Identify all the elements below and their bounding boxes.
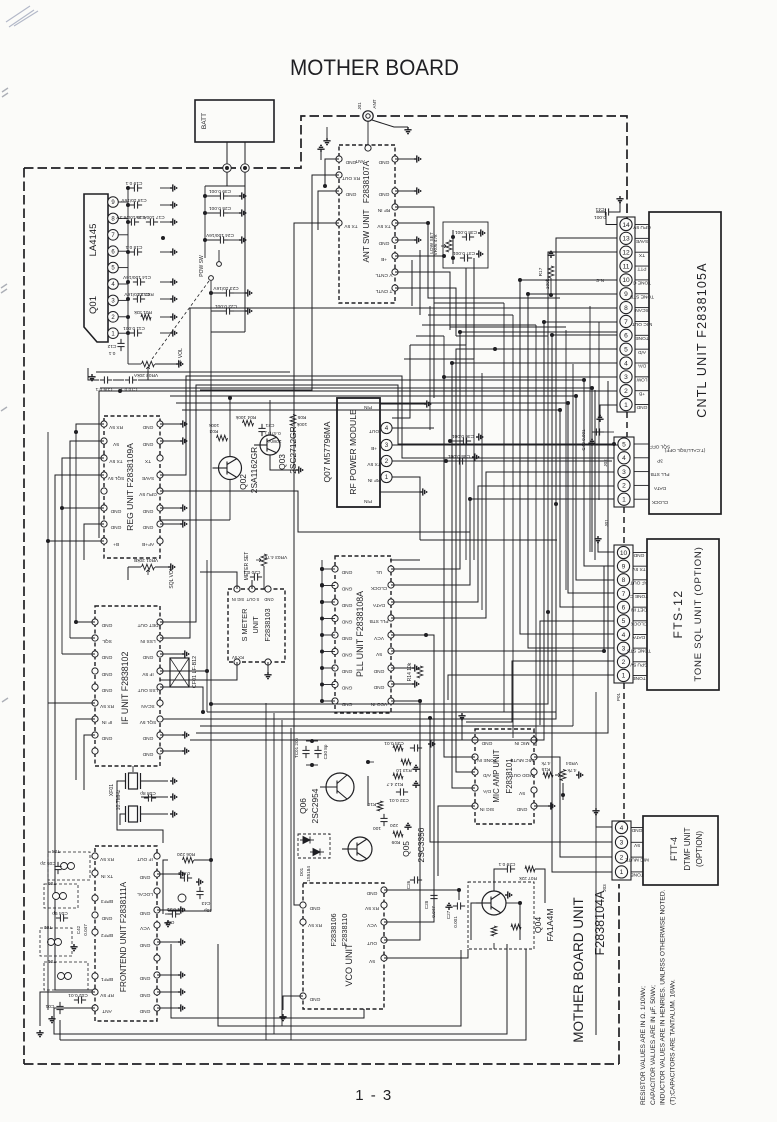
svg-text:Q05: Q05 xyxy=(401,841,411,857)
svg-text:GND: GND xyxy=(341,569,352,575)
svg-text:4: 4 xyxy=(622,455,626,462)
svg-text:GND: GND xyxy=(142,751,153,757)
svg-text:0.001: 0.001 xyxy=(453,916,458,928)
svg-text:C26: C26 xyxy=(406,880,411,889)
svg-text:T03: T03 xyxy=(48,880,57,886)
svg-text:BPF2: BPF2 xyxy=(101,932,113,938)
svg-text:OUT: OUT xyxy=(367,940,377,946)
svg-text:SCAN: SCAN xyxy=(635,307,649,313)
svg-text:3P: 3P xyxy=(657,457,663,463)
svg-text:GND: GND xyxy=(101,687,112,693)
svg-text:RX 5V: RX 5V xyxy=(99,856,114,862)
svg-text:RX 5V: RX 5V xyxy=(307,922,322,928)
svg-text:C12: C12 xyxy=(107,343,116,349)
svg-text:C30 8p: C30 8p xyxy=(323,744,328,759)
svg-text:CLOCK: CLOCK xyxy=(370,585,387,591)
svg-text:INDUCTOR VALUES ARE IN HENRIES: INDUCTOR VALUES ARE IN HENRIES. UNLRSS O… xyxy=(660,889,667,1105)
svg-text:TONE: TONE xyxy=(632,675,645,681)
svg-text:PLL UNIT F2838108A: PLL UNIT F2838108A xyxy=(355,591,365,677)
svg-text:LOCAL: LOCAL xyxy=(137,891,153,897)
svg-text:R01 33k: R01 33k xyxy=(133,309,151,315)
svg-text:UNIT: UNIT xyxy=(251,616,260,634)
svg-text:9: 9 xyxy=(624,291,628,298)
svg-text:D/A: D/A xyxy=(482,788,491,794)
svg-text:FTS-12: FTS-12 xyxy=(671,589,685,638)
svg-text:TONE STB: TONE STB xyxy=(630,293,654,299)
svg-text:F2838110: F2838110 xyxy=(340,914,349,947)
svg-text:C28: C28 xyxy=(424,900,429,909)
svg-text:7: 7 xyxy=(624,319,628,326)
svg-text:CAPACITOR VALUES ARE IN µF. 50: CAPACITOR VALUES ARE IN µF. 50Wv; xyxy=(650,985,657,1105)
svg-text:PIN: PIN xyxy=(363,404,372,410)
svg-text:9: 9 xyxy=(622,563,626,570)
svg-text:+B: +B xyxy=(371,445,377,451)
svg-text:5V: 5V xyxy=(375,651,382,657)
svg-text:3: 3 xyxy=(385,442,389,449)
svg-text:8: 8 xyxy=(624,305,628,312)
svg-text:SCAN: SCAN xyxy=(141,703,155,709)
svg-text:V CNTL: V CNTL xyxy=(375,272,392,278)
svg-text:5V: 5V xyxy=(633,842,640,848)
svg-text:C02 0.01: C02 0.01 xyxy=(68,992,88,998)
svg-text:GND: GND xyxy=(366,890,377,896)
svg-text:J03: J03 xyxy=(602,884,607,892)
svg-text:MOTHER BOARD UNIT: MOTHER BOARD UNIT xyxy=(571,897,586,1043)
svg-text:FA1A4M: FA1A4M xyxy=(545,909,555,942)
svg-text:GND: GND xyxy=(101,915,112,921)
svg-text:TC01 20p: TC01 20p xyxy=(294,737,299,758)
svg-text:Q07 M57796MA: Q07 M57796MA xyxy=(322,421,332,482)
svg-text:PLL STB: PLL STB xyxy=(369,618,388,624)
svg-text:RX 5V: RX 5V xyxy=(108,424,123,430)
svg-text:GND: GND xyxy=(309,996,320,1002)
svg-text:GND: GND xyxy=(636,404,647,410)
svg-text:FTT-4: FTT-4 xyxy=(669,837,679,861)
svg-text:DTMF UNIT: DTMF UNIT xyxy=(683,827,692,870)
svg-text:GND: GND xyxy=(142,424,153,430)
svg-text:+B: +B xyxy=(381,256,387,262)
svg-text:VR01 20kB: VR01 20kB xyxy=(134,557,158,563)
svg-text:D01: D01 xyxy=(299,867,304,876)
svg-text:2: 2 xyxy=(622,483,626,490)
svg-text:PTT: PTT xyxy=(637,266,646,272)
svg-text:T01: T01 xyxy=(48,958,57,964)
svg-text:R17: R17 xyxy=(538,267,544,276)
svg-text:C36 0.001: C36 0.001 xyxy=(452,433,474,439)
svg-text:SQL 5V: SQL 5V xyxy=(107,475,124,481)
svg-text:0.001: 0.001 xyxy=(178,870,190,876)
svg-text:UL: UL xyxy=(376,569,382,575)
svg-text:4.7k: 4.7k xyxy=(567,767,577,773)
svg-text:VCV: VCV xyxy=(139,925,150,931)
svg-text:GND: GND xyxy=(101,654,112,660)
svg-text:5V: 5V xyxy=(518,790,525,796)
svg-text:0.47(T): 0.47(T) xyxy=(265,430,281,436)
svg-text:VCV: VCV xyxy=(366,922,377,928)
svg-text:TONE: TONE xyxy=(635,335,648,341)
svg-text:GND: GND xyxy=(139,1008,150,1014)
svg-text:BPF3: BPF3 xyxy=(101,898,113,904)
svg-text:C37 0.001: C37 0.001 xyxy=(453,250,475,256)
svg-text:4: 4 xyxy=(620,825,624,832)
svg-text:GND: GND xyxy=(341,684,352,690)
svg-text:C38 0.001: C38 0.001 xyxy=(455,229,477,235)
svg-text:MIC MUTE: MIC MUTE xyxy=(625,857,649,863)
svg-text:100k: 100k xyxy=(208,422,219,428)
svg-text:6: 6 xyxy=(622,604,626,611)
svg-text:S METER: S METER xyxy=(240,609,249,642)
svg-text:5V: 5V xyxy=(368,958,375,964)
svg-text:GND: GND xyxy=(101,735,112,741)
svg-text:T CNTL: T CNTL xyxy=(375,288,392,294)
svg-text:3: 3 xyxy=(622,469,626,476)
svg-text:GND: GND xyxy=(341,635,352,641)
svg-text:LOW: LOW xyxy=(636,376,647,382)
svg-text:GPU 5V: GPU 5V xyxy=(632,224,650,230)
svg-text:C35 0.001: C35 0.001 xyxy=(448,453,470,459)
svg-text:1: 1 xyxy=(622,673,626,680)
svg-text:POW SW: POW SW xyxy=(199,255,205,277)
svg-text:GPU 5V: GPU 5V xyxy=(629,661,647,667)
svg-text:C18 10/16V: C18 10/16V xyxy=(121,197,147,203)
svg-text:RF IN: RF IN xyxy=(377,207,390,213)
svg-text:6: 6 xyxy=(624,333,628,340)
svg-text:2: 2 xyxy=(622,659,626,666)
svg-text:20WV: 20WV xyxy=(268,438,282,444)
svg-text:S OUT: S OUT xyxy=(246,597,259,602)
svg-text:0.001: 0.001 xyxy=(594,214,606,220)
svg-text:RF IN: RF IN xyxy=(367,477,380,483)
svg-text:GND: GND xyxy=(139,942,150,948)
svg-text:C14 100/16V: C14 100/16V xyxy=(122,274,151,280)
svg-text:BPF1: BPF1 xyxy=(101,976,113,982)
svg-text:C42: C42 xyxy=(76,925,81,934)
svg-text:SQL: SQL xyxy=(102,638,112,644)
svg-text:R02 22: R02 22 xyxy=(138,291,154,297)
svg-text:SAVE: SAVE xyxy=(142,475,154,481)
svg-text:5: 5 xyxy=(622,441,626,448)
svg-text:1S5184: 1S5184 xyxy=(306,866,311,882)
svg-text:GND: GND xyxy=(341,618,352,624)
svg-text:METER SET: METER SET xyxy=(244,552,250,581)
svg-text:P01: P01 xyxy=(616,692,621,701)
svg-text:LA4145: LA4145 xyxy=(88,224,99,257)
svg-text:GND: GND xyxy=(373,684,384,690)
svg-text:GND: GND xyxy=(516,806,527,812)
svg-text:10: 10 xyxy=(620,550,628,557)
svg-text:C41: C41 xyxy=(595,206,604,212)
svg-text:J02: J02 xyxy=(603,459,608,467)
svg-text:ANT: ANT xyxy=(372,99,377,108)
svg-text:IF IN: IF IN xyxy=(101,719,112,725)
svg-text:DET OUT: DET OUT xyxy=(137,622,158,628)
svg-text:(T):CAPACITORS ARE TANTALUM. 1: (T):CAPACITORS ARE TANTALUM. 16Wv. xyxy=(669,979,676,1105)
svg-text:PLL STB: PLL STB xyxy=(650,471,669,477)
svg-text:RF POWER MODULE: RF POWER MODULE xyxy=(348,409,358,495)
svg-text:TX 5V: TX 5V xyxy=(367,461,381,467)
svg-text:DATA: DATA xyxy=(372,602,385,608)
svg-text:TX 5V: TX 5V xyxy=(377,223,391,229)
svg-text:LSS OUT: LSS OUT xyxy=(138,687,159,693)
svg-text:4: 4 xyxy=(624,360,628,367)
svg-text:GND: GND xyxy=(139,874,150,880)
svg-text:GND: GND xyxy=(345,159,356,165)
svg-text:GND: GND xyxy=(142,524,153,530)
svg-text:GND: GND xyxy=(309,905,320,911)
svg-text:D/A: D/A xyxy=(637,363,646,369)
svg-text:ANT: ANT xyxy=(102,1008,112,1014)
svg-text:GND: GND xyxy=(264,597,273,602)
svg-text:TX IN: TX IN xyxy=(100,873,113,879)
svg-text:11: 11 xyxy=(623,263,630,270)
svg-text:1: 1 xyxy=(385,474,389,481)
svg-text:8: 8 xyxy=(622,577,626,584)
svg-text:FRONTEND UNIT F2838111A: FRONTEND UNIT F2838111A xyxy=(119,881,128,992)
svg-text:MOD OUT: MOD OUT xyxy=(511,772,534,778)
svg-text:GND: GND xyxy=(378,240,389,246)
svg-text:5: 5 xyxy=(624,346,628,353)
svg-text:C04 9p: C04 9p xyxy=(52,910,68,916)
svg-text:100k: 100k xyxy=(545,278,551,289)
svg-text:LOW SET: LOW SET xyxy=(429,232,435,254)
svg-text:VR03 4.7k: VR03 4.7k xyxy=(264,554,287,560)
svg-text:GND: GND xyxy=(341,602,352,608)
svg-text:TX 5V: TX 5V xyxy=(632,566,646,572)
svg-text:A/D: A/D xyxy=(482,772,491,778)
svg-text:F2838106: F2838106 xyxy=(329,913,338,946)
svg-text:GND: GND xyxy=(345,191,356,197)
svg-text:DATA: DATA xyxy=(632,634,645,640)
svg-text:J01: J01 xyxy=(357,102,362,110)
svg-text:2SC2712GR: 2SC2712GR xyxy=(288,426,298,474)
svg-text:AF+B: AF+B xyxy=(142,541,154,547)
svg-text:F2838107A: F2838107A xyxy=(362,160,371,203)
svg-text:GND: GND xyxy=(142,441,153,447)
svg-text:GND: GND xyxy=(101,671,112,677)
svg-text:100k: 100k xyxy=(296,421,307,427)
svg-text:CF01 LF-B12: CF01 LF-B12 xyxy=(192,656,198,688)
svg-text:TONE IN: TONE IN xyxy=(477,757,497,763)
svg-text:C23 10/16V: C23 10/16V xyxy=(213,285,239,291)
svg-text:4: 4 xyxy=(622,632,626,639)
svg-text:GND: GND xyxy=(481,740,492,746)
svg-text:R05: R05 xyxy=(297,414,306,420)
svg-text:0.047: 0.047 xyxy=(83,924,88,936)
svg-text:C27: C27 xyxy=(446,910,451,919)
svg-text:ANT SW UNIT: ANT SW UNIT xyxy=(362,209,371,262)
svg-text:C17 100/6.3V: C17 100/6.3V xyxy=(135,214,165,220)
svg-text:Q04: Q04 xyxy=(533,917,543,933)
svg-text:MOTHER BOARD: MOTHER BOARD xyxy=(290,55,459,80)
svg-text:C29 0.1: C29 0.1 xyxy=(498,861,515,867)
svg-text:SQL OFF: SQL OFF xyxy=(650,444,670,450)
svg-text:GND: GND xyxy=(341,651,352,657)
svg-text:VR04: VR04 xyxy=(566,760,578,766)
svg-text:C39 0.001: C39 0.001 xyxy=(209,188,231,194)
svg-text:GND: GND xyxy=(101,622,112,628)
svg-text:C19 0.1: C19 0.1 xyxy=(125,180,142,186)
svg-text:CNTL UNIT F2838105A: CNTL UNIT F2838105A xyxy=(695,262,709,418)
svg-text:GND: GND xyxy=(341,585,352,591)
svg-text:RF 5V: RF 5V xyxy=(99,992,113,998)
svg-text:3: 3 xyxy=(620,840,624,847)
svg-text:1: 1 xyxy=(620,869,624,876)
svg-text:7: 7 xyxy=(622,591,626,598)
svg-text:R15: R15 xyxy=(541,766,550,772)
svg-text:VR02 20kA: VR02 20kA xyxy=(133,372,158,378)
svg-text:3: 3 xyxy=(624,374,628,381)
svg-text:GND: GND xyxy=(139,975,150,981)
svg-text:Q06: Q06 xyxy=(298,798,308,814)
svg-text:GND: GND xyxy=(139,992,150,998)
svg-text:GND: GND xyxy=(110,508,121,514)
svg-text:1: 1 xyxy=(622,497,626,504)
svg-text:IF OUT: IF OUT xyxy=(137,856,153,862)
svg-text:C32 0.01: C32 0.01 xyxy=(389,797,409,803)
svg-text:12: 12 xyxy=(622,250,630,257)
svg-text:SAVE: SAVE xyxy=(636,238,648,244)
svg-text:SIG IN: SIG IN xyxy=(479,806,494,812)
svg-text:C08 8p: C08 8p xyxy=(140,790,156,796)
svg-text:GND: GND xyxy=(142,508,153,514)
svg-text:5V: 5V xyxy=(112,441,119,447)
svg-text:10: 10 xyxy=(622,277,630,284)
svg-text:2SA1162GR: 2SA1162GR xyxy=(249,447,259,493)
svg-text:BATT: BATT xyxy=(201,113,208,129)
svg-text:GND: GND xyxy=(378,191,389,197)
svg-text:RESISTOR VALUES ARE IN Ω. 1/10: RESISTOR VALUES ARE IN Ω. 1/10Wv; xyxy=(640,986,647,1105)
svg-text:RX OUT: RX OUT xyxy=(342,175,360,181)
svg-text:13: 13 xyxy=(622,236,630,243)
svg-text:Q01: Q01 xyxy=(88,296,99,314)
svg-text:C43: C43 xyxy=(201,900,210,906)
svg-text:0.1: 0.1 xyxy=(108,350,115,356)
svg-text:SIG IN: SIG IN xyxy=(232,597,245,602)
svg-text:VCO UNIT: VCO UNIT xyxy=(344,943,354,987)
svg-text:GND: GND xyxy=(142,735,153,741)
svg-text:R07 22k: R07 22k xyxy=(518,875,536,881)
svg-text:GND: GND xyxy=(341,668,352,674)
svg-text:VCV: VCV xyxy=(373,635,384,641)
svg-text:F2838104A: F2838104A xyxy=(593,890,607,955)
svg-text:T04: T04 xyxy=(52,848,61,854)
svg-text:AF OUT: AF OUT xyxy=(630,579,648,585)
svg-text:PIN: PIN xyxy=(363,498,372,504)
svg-text:TONE SQL UNIT (OPTION): TONE SQL UNIT (OPTION) xyxy=(693,546,704,681)
svg-text:GPU 5V: GPU 5V xyxy=(138,491,156,497)
svg-text:RX 5V: RX 5V xyxy=(232,655,244,660)
svg-text:CLOCK: CLOCK xyxy=(630,620,647,626)
svg-text:GND: GND xyxy=(631,827,642,833)
svg-text:MIC IN: MIC IN xyxy=(514,740,529,746)
svg-text:C20 0.1: C20 0.1 xyxy=(243,569,260,575)
svg-text:C25 0.001: C25 0.001 xyxy=(209,205,231,211)
svg-text:2: 2 xyxy=(385,458,389,465)
svg-text:B+: B+ xyxy=(113,541,119,547)
svg-text:3: 3 xyxy=(622,645,626,652)
svg-text:IF UNIT F2838102: IF UNIT F2838102 xyxy=(120,652,130,725)
svg-text:R10: R10 xyxy=(367,801,376,807)
svg-text:C24 100/16V: C24 100/16V xyxy=(205,232,234,238)
svg-text:TX: TX xyxy=(144,458,151,464)
svg-text:SQL VOL: SQL VOL xyxy=(169,567,175,588)
svg-text:LSS IN: LSS IN xyxy=(140,638,156,644)
svg-text:Q03: Q03 xyxy=(277,454,287,470)
svg-text:R12 4.7: R12 4.7 xyxy=(386,781,403,787)
svg-text:4.7k: 4.7k xyxy=(541,760,551,766)
svg-text:4: 4 xyxy=(385,425,389,432)
svg-text:C34 0.01: C34 0.01 xyxy=(384,740,404,746)
svg-text:CLOCK: CLOCK xyxy=(651,499,668,505)
svg-text:F2838103: F2838103 xyxy=(263,608,272,641)
svg-text:R06 220: R06 220 xyxy=(177,851,195,857)
svg-text:GND: GND xyxy=(139,910,150,916)
svg-text:RX 5V: RX 5V xyxy=(364,905,379,911)
svg-text:1: 1 xyxy=(624,402,628,409)
svg-text:GND: GND xyxy=(110,524,121,530)
svg-text:DET IN: DET IN xyxy=(631,607,647,613)
svg-text:TONE C: TONE C xyxy=(629,593,648,599)
svg-text:RX 5V: RX 5V xyxy=(99,703,114,709)
svg-text:C11 0.001: C11 0.001 xyxy=(123,325,145,331)
svg-text:2: 2 xyxy=(624,388,628,395)
svg-text:1 - 3: 1 - 3 xyxy=(355,1087,393,1104)
svg-text:DATA: DATA xyxy=(653,485,666,491)
svg-text:A/D: A/D xyxy=(637,349,646,355)
svg-text:2SC3356: 2SC3356 xyxy=(416,827,426,862)
svg-text:XF01: XF01 xyxy=(109,784,115,797)
svg-text:R09: R09 xyxy=(391,839,400,845)
svg-text:TX: TX xyxy=(638,252,645,258)
svg-text:REG UNIT F2838109A: REG UNIT F2838109A xyxy=(125,443,135,531)
svg-text:C01: C01 xyxy=(45,1003,54,1009)
svg-text:IF 5V: IF 5V xyxy=(141,671,153,677)
svg-text:TX 5V: TX 5V xyxy=(344,223,358,229)
svg-text:GND: GND xyxy=(142,654,153,660)
svg-text:R14 10k: R14 10k xyxy=(407,662,413,681)
svg-text:TONE: TONE xyxy=(630,872,643,878)
svg-text:14: 14 xyxy=(622,222,630,229)
svg-text:5: 5 xyxy=(622,618,626,625)
svg-text:MIC MUTE: MIC MUTE xyxy=(510,757,534,763)
svg-text:SQL 5V: SQL 5V xyxy=(139,719,156,725)
svg-text:(OPTION): (OPTION) xyxy=(695,831,704,867)
svg-text:GND: GND xyxy=(633,552,644,558)
svg-text:220: 220 xyxy=(390,822,398,828)
svg-text:GND: GND xyxy=(373,668,384,674)
svg-text:OUT: OUT xyxy=(369,428,379,434)
svg-text:100: 100 xyxy=(373,825,381,831)
svg-text:R13 10: R13 10 xyxy=(396,767,412,773)
svg-text:Q02: Q02 xyxy=(238,474,248,490)
svg-text:R04 100k: R04 100k xyxy=(235,414,256,420)
svg-text:+B: +B xyxy=(639,390,645,396)
svg-text:TX 5V: TX 5V xyxy=(109,458,123,464)
svg-text:2SC2954: 2SC2954 xyxy=(310,788,320,823)
svg-text:GND: GND xyxy=(378,159,389,165)
svg-text:2: 2 xyxy=(620,854,624,861)
